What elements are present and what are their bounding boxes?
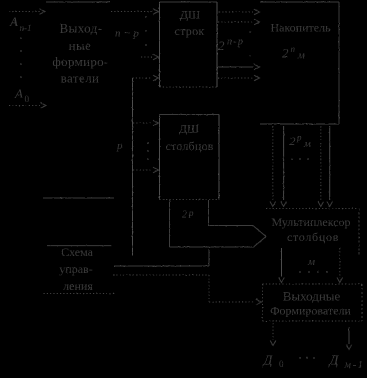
- svg-text:n-p: n-p: [227, 37, 244, 48]
- svg-text:n-1: n-1: [20, 23, 32, 33]
- svg-text:Мультиплексор: Мультиплексор: [271, 215, 350, 229]
- svg-text:А: А: [9, 14, 18, 29]
- svg-text:столбцов: столбцов: [287, 230, 339, 244]
- svg-text:м: м: [297, 51, 305, 62]
- svg-text:м: м: [303, 139, 311, 150]
- svg-text:Д: Д: [262, 354, 274, 369]
- svg-text:p: p: [188, 208, 194, 218]
- svg-text:м: м: [307, 256, 315, 268]
- svg-text:А: А: [14, 86, 23, 101]
- svg-text:Д: Д: [328, 354, 340, 369]
- svg-text:ные: ные: [69, 38, 92, 53]
- svg-text:ления: ления: [63, 279, 93, 293]
- svg-text:2: 2: [290, 134, 296, 148]
- svg-text:строк: строк: [174, 24, 204, 38]
- svg-text:p: p: [296, 133, 302, 143]
- svg-text:2: 2: [282, 46, 289, 61]
- svg-text:ДШ: ДШ: [179, 122, 199, 136]
- svg-text:Схема: Схема: [61, 245, 94, 259]
- svg-text:2: 2: [218, 38, 225, 53]
- svg-text:2: 2: [182, 210, 187, 221]
- svg-text:0: 0: [25, 94, 30, 104]
- svg-text:0: 0: [279, 359, 284, 369]
- svg-text:ватели: ватели: [61, 71, 100, 86]
- svg-text:м-1: м-1: [344, 360, 365, 371]
- svg-text:n: n: [291, 44, 296, 54]
- svg-text:Выход-: Выход-: [60, 21, 103, 36]
- svg-text:n − p: n − p: [115, 28, 139, 40]
- svg-text:p: p: [116, 140, 123, 152]
- svg-text:ДШ: ДШ: [180, 8, 200, 22]
- svg-text:Выходные: Выходные: [283, 289, 341, 304]
- svg-text:Формирователи: Формирователи: [270, 304, 351, 318]
- svg-text:формиро-: формиро-: [52, 54, 108, 69]
- svg-text:Накопитель: Накопитель: [270, 21, 331, 35]
- svg-text:управ-: управ-: [59, 262, 92, 276]
- svg-text:столбцов: столбцов: [165, 139, 213, 153]
